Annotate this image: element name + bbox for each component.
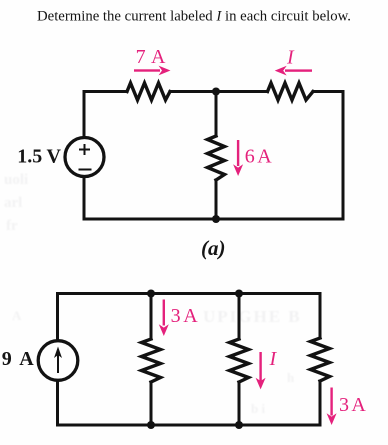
node dot top (a) bbox=[212, 88, 220, 96]
svg-text:3A: 3A bbox=[171, 305, 199, 327]
svg-text:I: I bbox=[269, 348, 278, 370]
wire top-left segment bbox=[84, 92, 127, 137]
svg-text:Determine the current labeled: Determine the current labeled I in each … bbox=[37, 9, 351, 25]
svg-text:A: A bbox=[12, 308, 22, 323]
resistor R2 (I branch) bbox=[268, 83, 314, 100]
wire middle branch upper bbox=[215, 92, 218, 137]
arrow I branch2 (down) bbox=[256, 352, 266, 389]
wire right branch lower bbox=[319, 381, 322, 425]
node dot bottom (a) bbox=[212, 215, 220, 223]
svg-text:b i: b i bbox=[251, 401, 265, 416]
resistor R6 (right, 3A) bbox=[311, 338, 330, 381]
resistor R3 (6A branch) bbox=[208, 136, 225, 180]
node dot branch1 bottom bbox=[147, 421, 155, 429]
arrow 7A (right) bbox=[134, 66, 171, 76]
wire bottom rail (b) bbox=[58, 380, 321, 425]
resistor R5 (I branch) bbox=[230, 339, 249, 382]
svg-text:uoli: uoli bbox=[4, 172, 28, 188]
svg-text:fr: fr bbox=[6, 218, 18, 234]
wire branch2 upper bbox=[238, 294, 241, 340]
node dot branch2 top bbox=[235, 290, 243, 298]
svg-text:I: I bbox=[286, 47, 295, 69]
wire branch1 lower bbox=[150, 382, 153, 425]
svg-text:h: h bbox=[287, 370, 295, 385]
wire top-mid segment bbox=[170, 90, 268, 93]
svg-text:7A: 7A bbox=[136, 46, 166, 68]
svg-text:9A: 9A bbox=[2, 348, 35, 370]
voltage source V (1.5 V) bbox=[65, 138, 104, 177]
node dot branch2 bottom bbox=[235, 421, 243, 429]
wire bottom rail (a) bbox=[84, 178, 343, 219]
arrow 3A branch1 (down) bbox=[159, 300, 169, 337]
wire branch1 upper bbox=[150, 294, 153, 340]
svg-text:6A: 6A bbox=[245, 146, 272, 168]
faint print bleed-through smudges (decorative) bbox=[4, 172, 302, 416]
resistor R1 (7A branch) bbox=[127, 83, 170, 100]
arrow I (left) bbox=[275, 66, 312, 76]
wire top rail (b) bbox=[58, 294, 321, 342]
wire top-right segment bbox=[313, 92, 343, 220]
node dot branch1 top bbox=[147, 290, 155, 298]
arrow 6A (down) bbox=[233, 140, 243, 176]
svg-text:arl: arl bbox=[4, 195, 22, 211]
wire right branch upper bbox=[319, 294, 322, 339]
resistor R4 (3A branch) bbox=[142, 339, 161, 382]
svg-text:(a): (a) bbox=[201, 236, 226, 260]
svg-text:3A: 3A bbox=[339, 394, 366, 416]
arrow 3A branch3 (down) bbox=[327, 388, 337, 426]
wire middle branch lower bbox=[215, 180, 218, 219]
svg-text:UPIGHE B: UPIGHE B bbox=[203, 307, 302, 326]
svg-text:1.5V: 1.5V bbox=[17, 146, 61, 168]
current source I (9 A) bbox=[38, 341, 78, 381]
wire branch2 lower bbox=[238, 382, 241, 425]
